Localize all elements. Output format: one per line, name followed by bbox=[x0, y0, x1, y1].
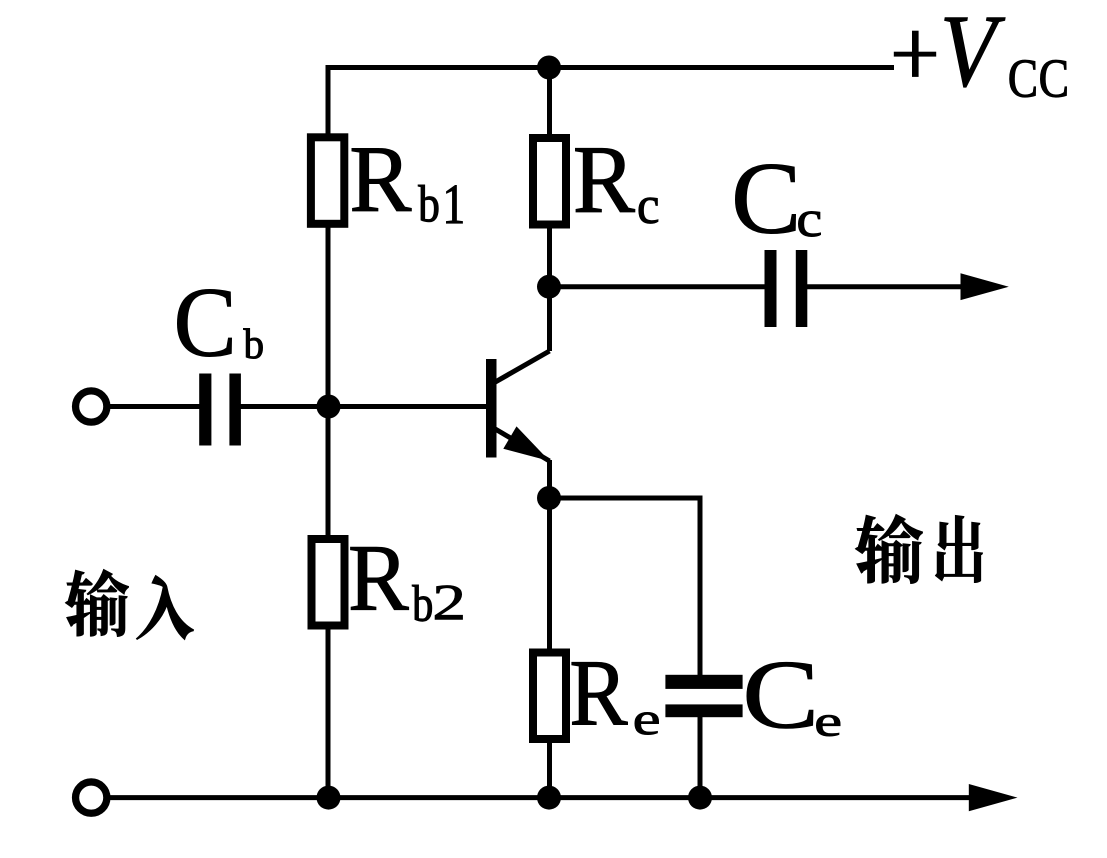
wire top rail bbox=[328, 65, 894, 70]
resistor Rc bbox=[533, 138, 566, 225]
wire Rb1 branch vertical bbox=[326, 65, 331, 798]
resistor Rb2 bbox=[312, 539, 345, 626]
transistor Q1 emitter arrowhead bbox=[503, 426, 549, 461]
label Cc bbox=[736, 164, 821, 236]
wire emitter vertical bbox=[547, 460, 552, 798]
text output label 输出 char 输 bbox=[856, 515, 923, 584]
wire Rc branch vertical bbox=[547, 65, 552, 351]
wire Cc to output arrow bbox=[807, 284, 962, 289]
node junction dot bottom Ce bbox=[688, 786, 712, 810]
label Re bbox=[572, 662, 659, 734]
text output label 输出 char 出 bbox=[936, 515, 983, 582]
resistor Re bbox=[533, 653, 566, 740]
wire base right segment bbox=[240, 404, 487, 409]
capacitor Cc plates bbox=[765, 250, 808, 327]
output arrow Cc line bbox=[961, 273, 1009, 300]
label Vcc CC subscript bbox=[1010, 60, 1067, 97]
wire Ce lower vertical bbox=[698, 716, 703, 798]
input terminal lower bbox=[76, 782, 107, 813]
wire bottom rail bbox=[109, 795, 970, 800]
wire base left segment bbox=[109, 404, 200, 409]
label Rb2 bbox=[351, 547, 463, 621]
input terminal upper bbox=[76, 391, 107, 422]
node junction dot emitter bbox=[537, 486, 561, 510]
label +Vcc plus sign bbox=[894, 31, 936, 77]
transistor Q1 base bar bbox=[486, 359, 497, 458]
node junction dot bottom Rb2 bbox=[317, 786, 341, 810]
node junction dot bottom Re bbox=[537, 786, 561, 810]
node junction dot top rail bbox=[537, 56, 561, 80]
label Vcc V bbox=[945, 18, 1005, 87]
text input label 输入 char 输 bbox=[65, 569, 128, 636]
label Cb bbox=[177, 290, 262, 359]
text input label 输入 char 入 bbox=[136, 576, 193, 640]
node junction dot collector bbox=[537, 275, 561, 299]
label Ce bbox=[747, 662, 840, 736]
wire emitter node to Ce bbox=[549, 498, 700, 676]
label Rb1 bbox=[352, 149, 462, 224]
node junction dot base bbox=[317, 395, 341, 419]
wire collector diagonal bbox=[491, 351, 550, 385]
wire emitter diagonal bbox=[491, 427, 550, 462]
label Rc bbox=[576, 148, 658, 223]
output arrow bottom rail bbox=[969, 784, 1018, 811]
capacitor Ce plates bbox=[665, 675, 742, 717]
resistor Rb1 bbox=[311, 137, 344, 224]
capacitor Cb plates bbox=[199, 374, 241, 446]
wire collector to Cc bbox=[550, 284, 766, 289]
